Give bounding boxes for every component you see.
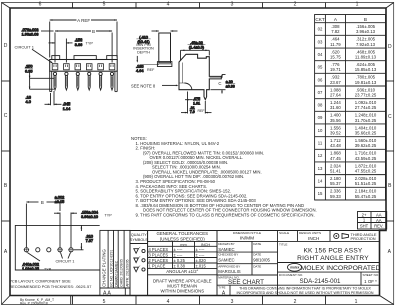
table row CKT 11 <box>315 148 386 150</box>
revision description box <box>100 230 130 295</box>
zone tick bottom <box>199 296 201 305</box>
table row CKT 13 <box>315 174 386 176</box>
svg-text:13: 13 <box>318 166 323 171</box>
svg-text:39.62±0.25: 39.62±0.25 <box>355 143 377 148</box>
svg-text:31.70±0.25: 31.70±0.25 <box>355 118 377 123</box>
svg-text:3: 3 <box>231 2 234 8</box>
svg-text:CIRCUIT 1: CIRCUIT 1 <box>56 259 75 264</box>
svg-text:AA: AA <box>376 218 382 223</box>
pcb dimension B <box>26 201 38 203</box>
svg-text:1: 1 <box>356 2 359 8</box>
tolerance row 1 PLACE <box>148 268 217 270</box>
table row CKT 08 <box>315 110 386 112</box>
scale box <box>297 231 299 242</box>
svg-text:59.33: 59.33 <box>330 194 341 199</box>
svg-text:±.015: ±.015 <box>196 264 207 269</box>
svg-text:DEPTH: DEPTH <box>137 50 150 54</box>
quality symbol 2 <box>134 258 139 263</box>
svg-text:INCORPORATED AND SHOULD NOT BE: INCORPORATED AND SHOULD NOT BE USED WITH… <box>237 291 374 295</box>
svg-text:SHEET NO.: SHEET NO. <box>363 273 380 277</box>
svg-text:SAMIEC: SAMIEC <box>218 247 234 252</box>
svg-text:15: 15 <box>318 191 323 196</box>
svg-text:1.02±0.05: 1.02±0.05 <box>22 267 39 271</box>
svg-text:4: 4 <box>167 299 170 305</box>
svg-text:C: C <box>4 113 8 119</box>
table row CKT 07 <box>315 98 386 100</box>
svg-text:98/10/05: 98/10/05 <box>253 258 270 263</box>
svg-text:(1.4±0.5): (1.4±0.5) <box>189 46 205 50</box>
table row CKT 15 <box>315 199 386 201</box>
svg-text:±0.38: ±0.38 <box>226 84 235 88</box>
dimension B <box>55 30 91 32</box>
svg-text:REF: REF <box>198 109 205 113</box>
housing polarization tab 2 <box>74 56 96 60</box>
svg-text:19.81±0.13: 19.81±0.13 <box>355 80 377 85</box>
zone tick right <box>386 80 394 82</box>
dimension .156 TYP pitch <box>49 42 56 44</box>
svg-text:1.14: 1.14 <box>63 106 71 111</box>
pcb hole 4 <box>58 248 62 252</box>
svg-text:INCH: INCH <box>308 236 319 241</box>
zone tick right <box>386 220 394 222</box>
svg-text:14: 14 <box>318 179 323 184</box>
quality symbol 1 <box>134 249 139 254</box>
svg-text:1: 1 <box>355 299 358 305</box>
dimension over mating pin <box>152 30 159 32</box>
dimension .310/7.87 REF below leg <box>187 92 189 114</box>
pcb layout board outline <box>15 225 99 270</box>
table row CKT 12 <box>315 161 386 163</box>
svg-text:CHECKED BY: CHECKED BY <box>218 253 238 257</box>
quality symbol 3 <box>134 267 139 272</box>
svg-text:35.66±0.25: 35.66±0.25 <box>355 131 377 136</box>
svg-text:SEE NOTE 8: SEE NOTE 8 <box>131 83 156 88</box>
svg-text:08: 08 <box>318 103 323 108</box>
svg-text:SAMIEC: SAMIEC <box>218 258 234 263</box>
svg-text:7.9: 7.9 <box>190 110 195 114</box>
corner chamfer bottom-right <box>380 296 394 305</box>
svg-text:39.52: 39.52 <box>330 131 341 136</box>
svg-text:3: 3 <box>231 299 234 305</box>
svg-text:± 0.25: ± 0.25 <box>174 258 186 263</box>
svg-text:CIRCUIT 1: CIRCUIT 1 <box>15 45 35 50</box>
svg-text:CHANGE PLATING: CHANGE PLATING <box>102 248 107 286</box>
tolerance row angular <box>148 274 217 276</box>
svg-text:03: 03 <box>318 39 323 44</box>
svg-text:23.77±0.25: 23.77±0.25 <box>355 93 377 98</box>
svg-text:3.96: 3.96 <box>75 42 83 47</box>
dimension .185/4.64 REF <box>136 56 138 61</box>
svg-text:02: 02 <box>318 27 323 32</box>
quality symbols column <box>130 231 148 296</box>
sheet no box <box>360 272 362 285</box>
svg-text:(UNLESS SPECIFIED): (UNLESS SPECIFIED) <box>160 237 205 242</box>
zone tick top <box>262 3 264 9</box>
zone tick right <box>386 150 394 152</box>
table row CKT 09 <box>315 123 386 125</box>
front view housing body <box>50 60 118 72</box>
svg-text:05: 05 <box>318 65 323 70</box>
pin 6 front view <box>110 72 113 75</box>
dimension .045 pin width <box>50 93 52 105</box>
zone tick top <box>72 3 74 9</box>
housing polarization tab 3 <box>107 56 118 60</box>
svg-text:07: 07 <box>318 90 323 95</box>
svg-text:REV.: REV. <box>374 224 383 229</box>
svg-text:11.89±0.13: 11.89±0.13 <box>355 55 377 60</box>
table row CKT 03 <box>315 47 386 49</box>
svg-text:APPR: 2012/09/05: APPR: 2012/09/05 <box>125 259 129 286</box>
tolerance row 2 PLACES <box>148 262 217 264</box>
svg-text:QUALITY: QUALITY <box>131 233 147 237</box>
housing window circuit 2 <box>64 64 70 70</box>
revision history table <box>358 212 387 230</box>
table row CKT 10 <box>315 136 386 138</box>
svg-text:DATE: DATE <box>253 242 261 246</box>
svg-text:2 PLACES: 2 PLACES <box>149 258 169 263</box>
svg-text:PCB LAYOUT, COMPONENT SIDE: PCB LAYOUT, COMPONENT SIDE <box>9 278 71 283</box>
svg-text:THIS DRAWING CONTAINS INFORMAT: THIS DRAWING CONTAINS INFORMATION THAT I… <box>239 287 371 291</box>
svg-text:43.59±0.25: 43.59±0.25 <box>355 156 377 161</box>
mating pin detail rectangle <box>159 33 171 63</box>
svg-text:A REF: A REF <box>77 18 90 23</box>
svg-text:DATE: DATE <box>253 253 261 257</box>
svg-text:± ----: ± ---- <box>196 247 205 252</box>
svg-text:3 PLACES: 3 PLACES <box>149 253 169 258</box>
svg-text:SCALE: SCALE <box>279 231 289 235</box>
zone tick bottom <box>72 296 74 305</box>
tolerance row 3 PLACES <box>148 257 217 259</box>
svg-text:TYP: TYP <box>86 41 94 45</box>
svg-text:CKT: CKT <box>315 17 325 22</box>
svg-text:B: B <box>41 200 44 205</box>
pin 2 front view <box>65 72 68 75</box>
table row CKT 05 <box>315 72 386 74</box>
corner chamfer top-right <box>386 3 394 9</box>
svg-text:55.37: 55.37 <box>330 181 341 186</box>
svg-text:ANGULAR ±1/2°: ANGULAR ±1/2° <box>166 269 198 274</box>
type A box <box>229 285 231 295</box>
housing right side wall <box>114 71 116 91</box>
zone tick left <box>2 220 11 222</box>
svg-text:APPROVED BY: APPROVED BY <box>218 264 240 268</box>
dimension C right of side view <box>222 74 226 76</box>
svg-text:DESIGN UNITS: DESIGN UNITS <box>299 231 321 235</box>
svg-text:PROJECTION: PROJECTION <box>351 236 376 241</box>
svg-text:43.48: 43.48 <box>330 143 341 148</box>
side view inner face line <box>181 63 183 84</box>
svg-text:4 PLACES: 4 PLACES <box>149 247 169 252</box>
zone tick left <box>2 80 11 82</box>
housing window circuit 3 <box>75 64 81 70</box>
title block outline top <box>130 230 380 232</box>
title block middle column <box>216 231 218 296</box>
circuit size table <box>315 15 386 200</box>
svg-text:1.91: 1.91 <box>193 101 200 105</box>
svg-text:DRAWN BY: DRAWN BY <box>218 242 235 246</box>
svg-text:± 0.38: ± 0.38 <box>174 264 186 269</box>
dimension A REF <box>50 19 77 21</box>
table row CKT 04 <box>315 60 386 62</box>
svg-text:15.85±0.13: 15.85±0.13 <box>355 67 377 72</box>
svg-text:5: 5 <box>103 2 106 8</box>
svg-text:TYP: TYP <box>105 214 113 218</box>
svg-text:4.0: 4.0 <box>25 99 31 104</box>
svg-text:DRAWN:SAMIEC: DRAWN:SAMIEC <box>114 260 118 287</box>
svg-text:3.96±0.10: 3.96±0.10 <box>81 215 98 219</box>
svg-text:27.74±0.25: 27.74±0.25 <box>355 105 377 110</box>
third angle projection symbol <box>278 240 380 242</box>
svg-text:C: C <box>218 81 221 86</box>
svg-text:31.60: 31.60 <box>330 105 341 110</box>
svg-text:4.64: 4.64 <box>136 68 144 73</box>
svg-text:±0.05: ±0.05 <box>55 200 64 204</box>
zone tick top <box>199 3 201 9</box>
molex logo <box>288 263 302 271</box>
svg-text:6: 6 <box>39 2 42 8</box>
svg-text:1.93±0.08: 1.93±0.08 <box>22 33 39 37</box>
material no row <box>217 284 380 286</box>
zone tick bottom <box>262 296 264 305</box>
svg-text:KK 156 PCB ASSY: KK 156 PCB ASSY <box>303 247 362 254</box>
pcb hole 5 <box>69 248 73 252</box>
svg-text:MOLEX INCORPORATED: MOLEX INCORPORATED <box>301 265 381 272</box>
svg-text:15.75: 15.75 <box>330 55 341 60</box>
svg-text:7.92±0.13: 7.92±0.13 <box>356 42 376 47</box>
svg-text:GENERAL TOLERANCES: GENERAL TOLERANCES <box>156 231 208 236</box>
svg-text:11: 11 <box>318 141 323 146</box>
svg-text:RECOMMENDED PCB THICKNESS: .06: RECOMMENDED PCB THICKNESS: .062/1.57 <box>9 284 91 289</box>
svg-text:06: 06 <box>318 77 323 82</box>
zone tick top <box>325 3 327 9</box>
svg-text:2: 2 <box>294 2 297 8</box>
table row CKT 14 <box>315 186 386 188</box>
svg-text:11.79: 11.79 <box>330 42 341 47</box>
svg-text:7.87: 7.87 <box>86 239 93 243</box>
side view gusset arc <box>184 83 192 90</box>
dimension .075/1.91 leg <box>185 99 193 101</box>
corner chamfer bottom-left <box>2 296 11 305</box>
housing window circuit 5 <box>98 64 104 70</box>
svg-text:EC NO. UCP2012-8291: EC NO. UCP2012-8291 <box>109 250 113 287</box>
svg-text:04: 04 <box>318 52 323 57</box>
svg-text:WITHIN DIMENSIONS: WITHIN DIMENSIONS <box>160 288 204 293</box>
table row CKT 02 <box>315 34 386 36</box>
svg-text:19.71: 19.71 <box>330 67 341 72</box>
svg-text:SEE CHART: SEE CHART <box>228 279 264 286</box>
svg-text:A A: A A <box>103 291 111 297</box>
pcb hole 3 <box>47 248 51 252</box>
svg-text:2: 2 <box>294 299 297 305</box>
svg-text:SDA-2145-001: SDA-2145-001 <box>300 278 341 285</box>
svg-text:47.55±0.25: 47.55±0.25 <box>355 169 377 174</box>
pcb hole 1 <box>24 248 28 252</box>
svg-text:10: 10 <box>318 128 323 133</box>
zone tick bottom <box>135 296 137 305</box>
housing window circuit 4 <box>86 64 92 70</box>
svg-text:TYPE: TYPE <box>218 286 225 290</box>
design units box <box>329 231 331 242</box>
housing window circuit 6 <box>109 64 115 70</box>
svg-text:9. THIS PART CONFORMS TO CLASS: 9. THIS PART CONFORMS TO CLASS B REQUIRE… <box>136 213 315 218</box>
svg-text:7.82: 7.82 <box>331 29 340 34</box>
svg-text:DOCUMENT NO.: DOCUMENT NO. <box>279 273 303 277</box>
general tolerances block <box>148 231 217 296</box>
svg-text:09: 09 <box>318 115 323 120</box>
zone tick bottom <box>325 296 327 305</box>
pin 3 front view <box>76 72 79 75</box>
svg-text:± ----: ± ---- <box>174 247 183 252</box>
svg-text:RIGHT ANGLE ENTRY: RIGHT ANGLE ENTRY <box>297 255 369 262</box>
svg-text:± ----: ± ---- <box>174 253 183 258</box>
bottom-left stamp box <box>70 296 72 305</box>
zone tick top <box>135 3 137 9</box>
svg-text:IN/MM: IN/MM <box>240 236 254 242</box>
svg-text:D: D <box>388 44 392 50</box>
svg-text:47.45: 47.45 <box>330 156 341 161</box>
svg-text:3.96±0.13: 3.96±0.13 <box>356 29 376 34</box>
svg-text:Rev. P 2009/06/18: Rev. P 2009/06/18 <box>20 302 48 306</box>
svg-text:TITLE: TITLE <box>279 242 287 246</box>
pcb dimension .156 TYP <box>59 213 61 248</box>
svg-text:51.51±0.25: 51.51±0.25 <box>355 181 377 186</box>
svg-text:1 OF *: 1 OF * <box>364 279 377 284</box>
svg-text:± ----: ± ---- <box>196 253 205 258</box>
title block row CHECKED BY <box>217 263 278 265</box>
svg-text:23.67: 23.67 <box>330 80 341 85</box>
svg-text:REF: REF <box>147 68 155 72</box>
side view housing profile <box>179 54 221 99</box>
title block row DRAWN BY <box>217 251 278 253</box>
svg-text:TYP: TYP <box>44 268 52 272</box>
svg-text:12: 12 <box>318 153 323 158</box>
svg-text:5: 5 <box>103 299 106 305</box>
svg-text:27.64: 27.64 <box>330 93 341 98</box>
pin 5 front view <box>99 72 102 75</box>
housing left side wall <box>49 71 51 91</box>
corner chamfer top-left <box>2 3 11 9</box>
mating pin contact <box>157 62 172 67</box>
table row CKT 06 <box>315 85 386 87</box>
housing polarization tab 1 <box>52 56 60 60</box>
svg-text:SYMBOLS: SYMBOLS <box>130 238 148 242</box>
svg-text:35.56: 35.56 <box>330 118 341 123</box>
svg-text:55.47±0.25: 55.47±0.25 <box>355 194 377 199</box>
svg-text:D: D <box>4 43 8 49</box>
svg-text:6.35: 6.35 <box>25 68 33 73</box>
svg-text:SHT: SHT <box>360 224 369 229</box>
svg-text:molex: molex <box>290 266 299 270</box>
pcb hole 2 <box>36 248 40 252</box>
revision letters row <box>124 288 126 296</box>
svg-text:4: 4 <box>167 2 170 8</box>
svg-text:C: C <box>388 114 392 120</box>
svg-text:B: B <box>92 29 95 34</box>
pin 4 front view <box>88 72 91 75</box>
svg-text:MARGULIS: MARGULIS <box>218 269 241 274</box>
svg-text:DIMENSION STYLE: DIMENSION STYLE <box>233 231 261 235</box>
side view pin center line <box>209 77 221 79</box>
svg-text:1 PLACE: 1 PLACE <box>149 264 166 269</box>
pcb dimension .310/7.87 <box>74 249 84 251</box>
title block row APPROVED BY <box>217 274 278 276</box>
molex incorporated row <box>278 262 380 264</box>
housing window circuit 1 <box>52 64 58 70</box>
zone tick left <box>2 150 11 152</box>
svg-text:±.020: ±.020 <box>196 258 207 263</box>
tolerance row 4 PLACES <box>148 251 217 253</box>
svg-text:B: B <box>364 17 367 22</box>
svg-text:51.41: 51.41 <box>330 169 341 174</box>
svg-text:DATE: DATE <box>253 264 261 268</box>
svg-text:CHKD: 2012/09/05: CHKD: 2012/09/05 <box>120 259 124 287</box>
pin 1 front view <box>53 72 56 75</box>
